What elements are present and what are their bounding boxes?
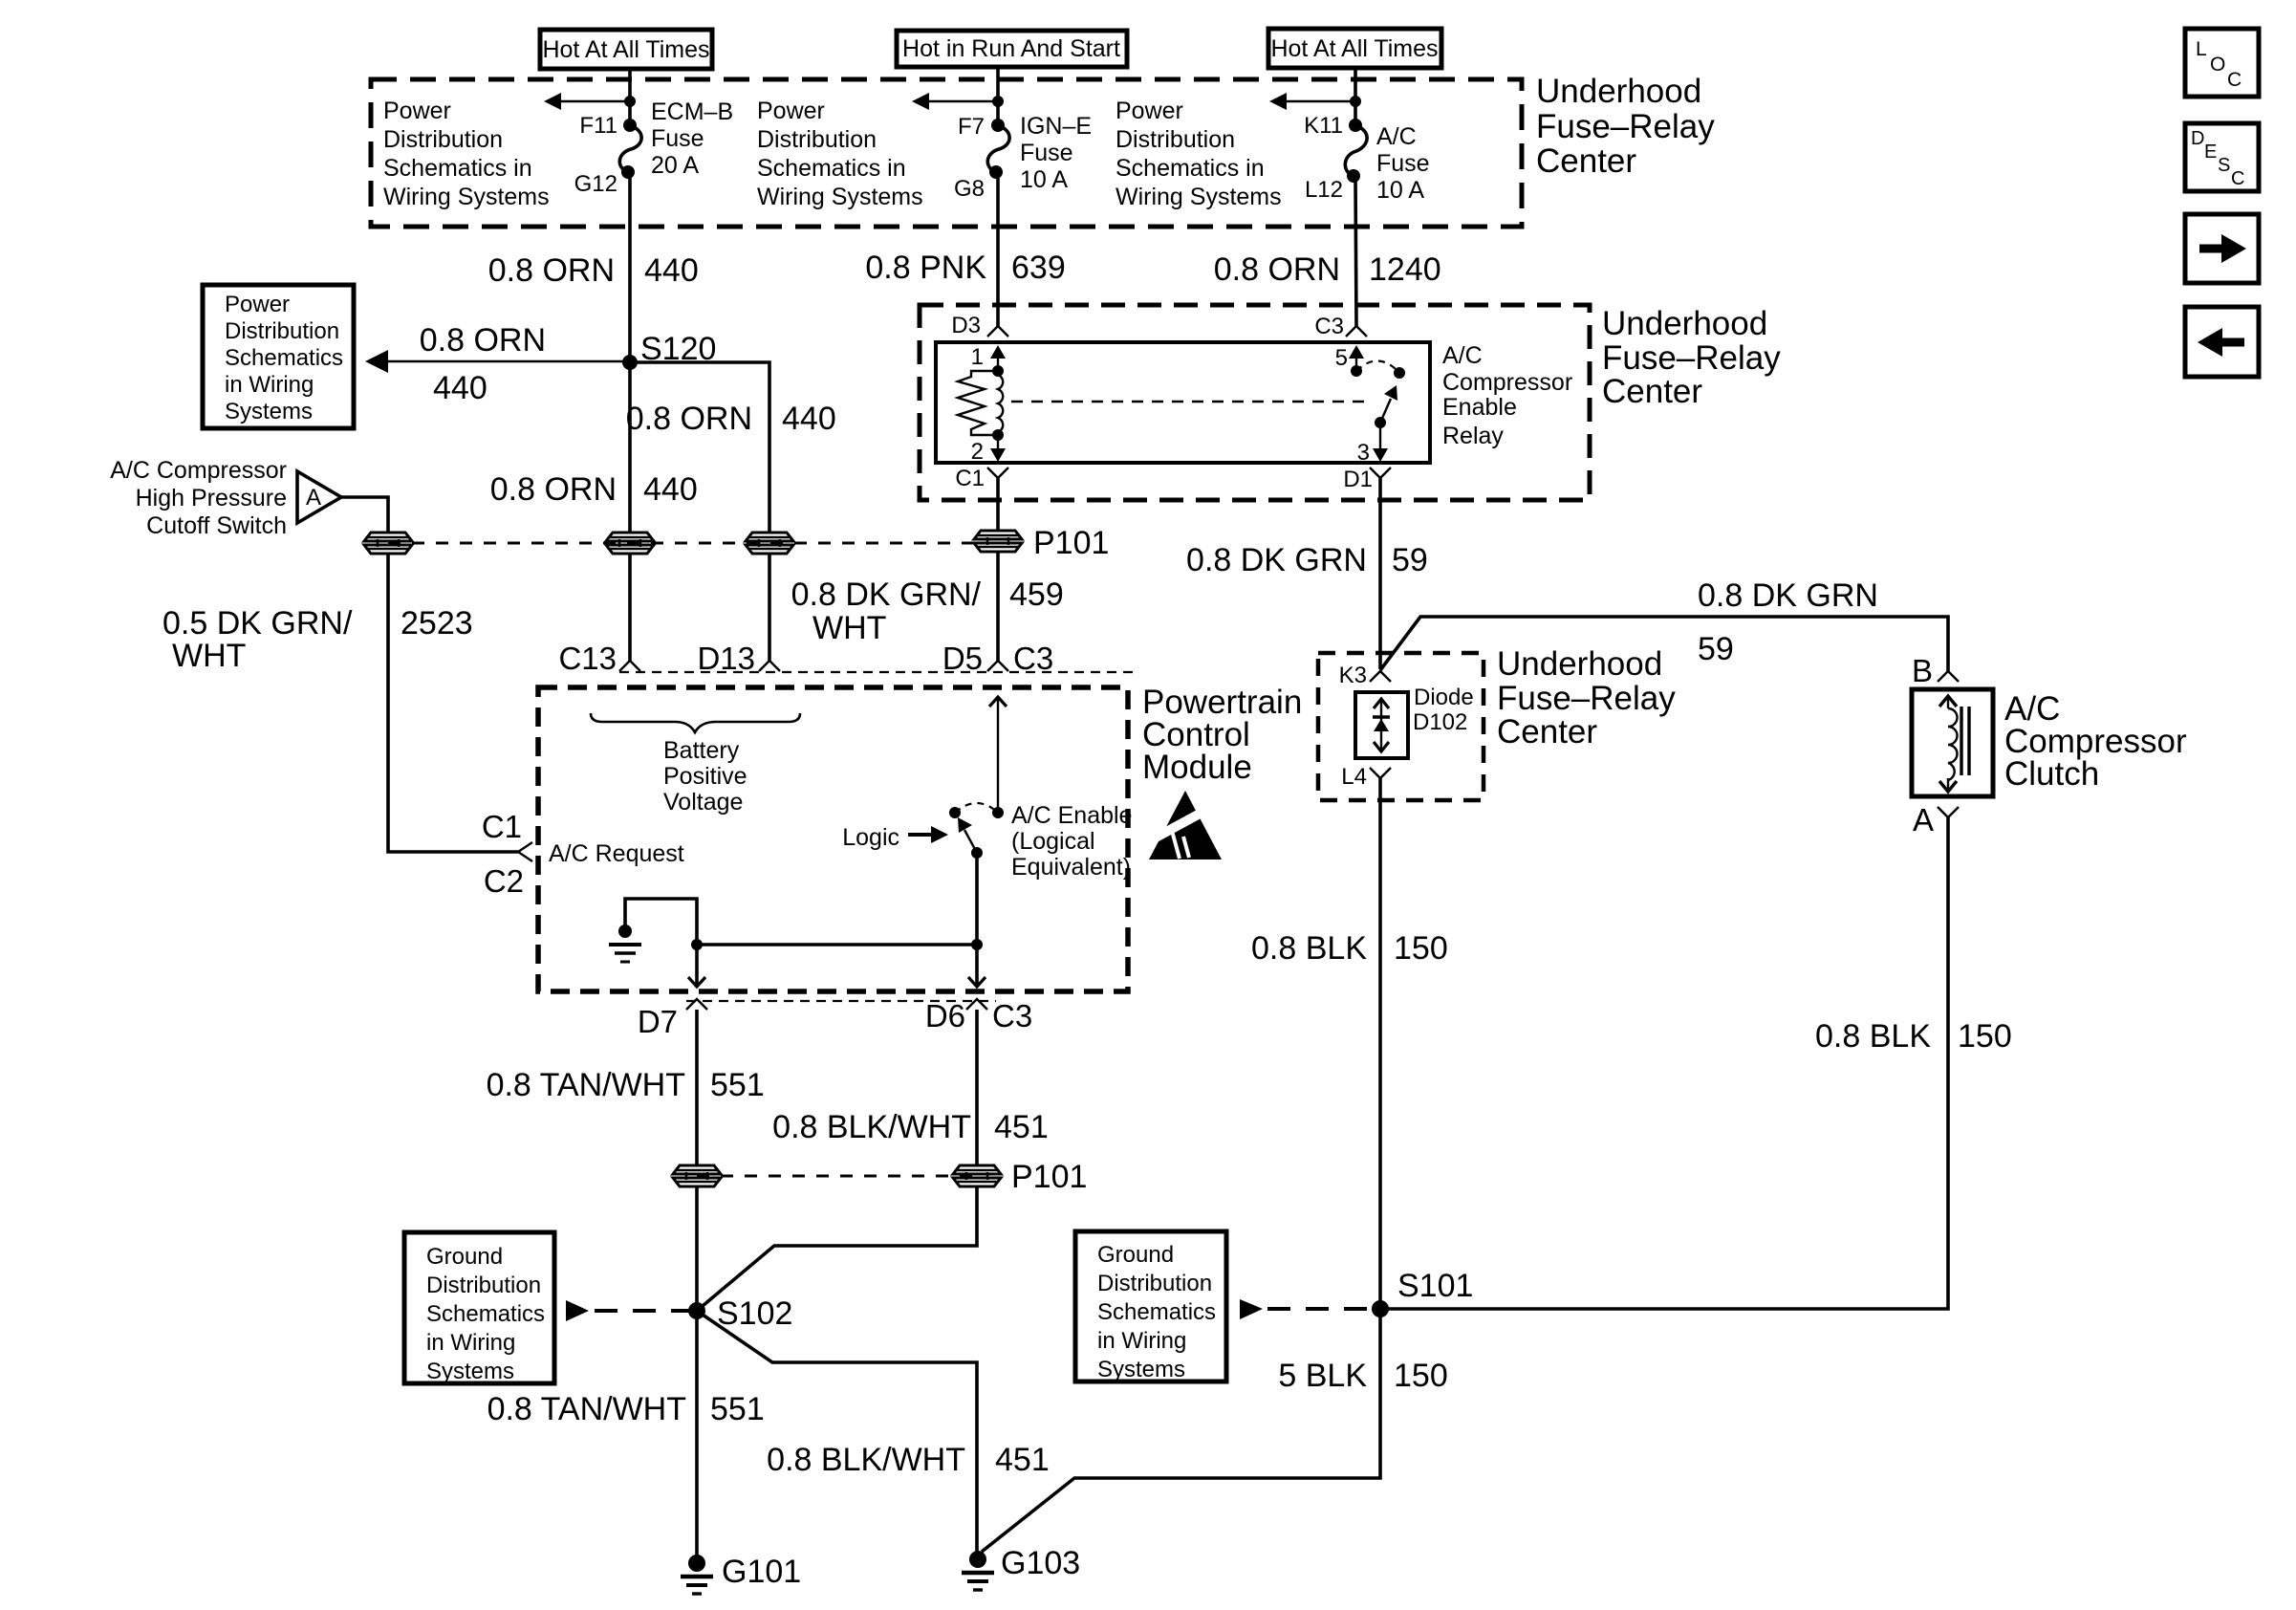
svg-text:Systems: Systems [1097,1357,1185,1382]
svg-text:Battery: Battery [663,737,740,764]
ground distribution box (left) [404,1232,554,1384]
PCM internal junction right [971,939,983,950]
svg-text:Fuse–Relay: Fuse–Relay [1497,680,1676,717]
powertrain control module dashed box [538,687,1128,991]
wire label 0.8 TAN/WHT 551 (upper) [487,1067,765,1103]
wire label 0.8 ORN 1240 [1214,251,1441,288]
svg-text:D6: D6 [925,998,965,1033]
diode D102 [1355,692,1408,758]
pin A chevron (clutch) [1913,802,1959,838]
ground G101 [681,1554,801,1594]
svg-text:551: 551 [710,1067,765,1103]
diode dashed box [1318,653,1484,800]
svg-text:451: 451 [994,1109,1049,1145]
wire label 0.8 BLK/WHT 451 (lower) [767,1442,1050,1478]
svg-text:WHT: WHT [812,610,886,646]
svg-text:E: E [2204,141,2217,163]
relay coil node 1 [992,365,1004,377]
A/C compressor enable relay box [936,342,1430,463]
svg-text:Positive: Positive [663,763,747,790]
svg-text:1240: 1240 [1369,251,1441,288]
wire pivot down [975,853,979,945]
svg-text:Underhood: Underhood [1602,305,1767,342]
relay pivot dot [1375,417,1386,428]
svg-text:Power: Power [225,292,290,317]
label Underhood Fuse-Relay Center (top) [1536,73,1715,180]
svg-text:A/C: A/C [1376,123,1417,150]
svg-text:C: C [2231,168,2244,189]
wire P101 down to PCM D5 [996,553,1000,662]
svg-text:Hot At All Times: Hot At All Times [542,36,709,63]
wire S120 right branch [630,362,769,532]
svg-text:Fuse–Relay: Fuse–Relay [1536,108,1715,145]
svg-text:10 A: 10 A [1020,166,1068,193]
PCM contact travel dashed arc [955,803,998,813]
svg-text:Power: Power [757,98,825,124]
wire label 0.8 ORN / 440 (S120 arrow) [420,322,546,406]
pin K3 chevron [1339,663,1391,688]
svg-text:Distribution: Distribution [757,126,877,153]
svg-text:Compressor: Compressor [1442,369,1572,396]
label Power Distribution Schematics in Wiring Systems (block 2) [757,98,923,210]
pin B chevron (clutch) [1912,653,1959,688]
svg-text:Voltage: Voltage [663,789,743,816]
relay actuation dashed line [1011,401,1373,402]
svg-text:150: 150 [1394,1358,1448,1394]
svg-text:150: 150 [1394,930,1448,967]
svg-text:in Wiring: in Wiring [1097,1328,1186,1354]
ESD sensitive symbol [1147,791,1222,859]
icon LOC [2185,29,2259,97]
relay resistor [958,371,998,435]
inline connector (fuse1 wire) [606,533,654,554]
wire fuse2 down to relay D3 [996,172,1000,326]
svg-text:ECM–B: ECM–B [651,98,733,125]
wire relay C1 down to P101 [996,478,1000,530]
hot box 3: Hot At All Times [1268,29,1441,68]
svg-text:G101: G101 [722,1554,801,1590]
PCM internal horizontal wire [697,943,977,946]
PCM switch right contact dot [992,807,1004,818]
wire label 0.8 ORN 440 (right branch) [626,401,836,437]
svg-text:0.8 DK GRN/: 0.8 DK GRN/ [791,577,982,613]
label Power Distribution Schematics in Wiring Systems (block 1) [383,98,550,210]
wire label 0.8 BLK 150 (right) [1815,1018,2012,1055]
svg-text:Logic: Logic [842,824,899,851]
wire S102 down to G101 [695,1311,699,1556]
relay pin 5 arrow [1335,345,1364,371]
svg-text:K3: K3 [1339,663,1367,688]
svg-text:5 BLK: 5 BLK [1278,1358,1367,1394]
pin D7 chevron [638,999,707,1039]
node S102 [688,1295,792,1332]
label Underhood Fuse-Relay Center (diode) [1497,645,1676,751]
svg-text:0.8 ORN: 0.8 ORN [488,252,615,289]
pin D6/C3 chevron [925,998,1032,1033]
svg-text:Power: Power [383,98,451,124]
svg-text:in Wiring: in Wiring [426,1330,515,1356]
svg-text:0.8 BLK: 0.8 BLK [1815,1018,1931,1055]
svg-text:O: O [2210,54,2225,76]
pin C1/C2 female (PCM left) [482,809,532,899]
wire label 0.8 BLK/WHT 451 (upper) [772,1109,1049,1145]
svg-text:D13: D13 [697,641,755,676]
svg-text:C3: C3 [1314,314,1344,339]
underhood fuse-relay center box (dashed) [371,79,1522,227]
wire label 0.8 ORN 440 (left branch) [490,471,698,508]
relay switch blade [1380,385,1397,423]
pin C1 chevron (relay bottom) [955,466,1008,491]
svg-text:L12: L12 [1305,177,1343,203]
wire from hot box 3 [1354,68,1357,125]
wire label 0.8 BLK 150 (left) [1251,930,1448,967]
fuse A/C K11/L12 [1345,119,1367,183]
svg-text:Center: Center [1497,713,1597,751]
PCM D5 input arrow [989,696,1007,813]
pin C3 chevron (relay) [1314,314,1367,339]
node S120 [622,331,716,370]
svg-text:Center: Center [1536,142,1636,180]
svg-text:20 A: 20 A [651,152,699,179]
svg-text:Hot At All Times: Hot At All Times [1270,35,1438,62]
svg-text:Schematics in: Schematics in [383,155,532,182]
wire D1 to K3 diagonal and horizontal DK GRN 59 [1380,617,1948,671]
relay pin 2 arrow [971,435,1006,465]
svg-text:C1: C1 [955,466,985,491]
wire from hot box 1 [628,69,632,125]
svg-text:2523: 2523 [401,605,473,642]
svg-text:Equivalent): Equivalent) [1011,854,1131,881]
svg-text:G103: G103 [1001,1545,1080,1581]
svg-text:D7: D7 [638,1004,678,1039]
svg-text:0.8 DK GRN: 0.8 DK GRN [1186,542,1367,578]
PCM switch pivot dot [971,847,983,859]
label Power Distribution Schematics in Wiring Systems (block 3) [1116,98,1282,210]
PCM switch blade [958,817,977,853]
inline connector P101 (relay C1 wire) [974,525,1109,561]
svg-text:P101: P101 [1033,525,1109,561]
svg-text:59: 59 [1392,542,1428,578]
wire TAN/WHT down to S102 [695,1187,699,1311]
wire clutch A down to S101 line [1380,817,1948,1309]
svg-text:Distribution: Distribution [426,1273,541,1298]
svg-text:B: B [1912,653,1933,688]
wire label 0.8 PNK 639 [865,250,1065,286]
svg-text:Hot in Run And Start: Hot in Run And Start [902,35,1120,62]
svg-text:Systems: Systems [225,399,313,424]
svg-text:10 A: 10 A [1376,177,1424,204]
svg-text:F11: F11 [579,113,617,139]
arrow to power distribution (fuse 1) [544,93,636,110]
svg-text:Fuse–Relay: Fuse–Relay [1602,339,1781,377]
relay pin 1 arrow [971,344,1006,371]
svg-text:P101: P101 [1011,1159,1087,1195]
wire fuse1 down to S120 [628,172,632,362]
wire right branch below connector to D13 [768,555,771,662]
svg-text:451: 451 [995,1442,1050,1478]
wire label 0.8 TAN/WHT 551 (lower) [487,1391,765,1427]
svg-text:IGN–E: IGN–E [1020,113,1092,140]
svg-text:G8: G8 [954,176,985,202]
svg-text:Relay: Relay [1442,423,1504,449]
svg-text:59: 59 [1698,631,1734,667]
dashed arrow to S101 [1240,1299,1374,1319]
svg-text:551: 551 [710,1391,765,1427]
wire relay D1 down [1378,478,1382,669]
svg-text:440: 440 [644,252,699,289]
svg-text:Schematics: Schematics [225,345,343,371]
label Underhood Fuse-Relay Center (relay) [1602,305,1781,410]
arrow to power distribution (fuse 2) [912,93,1004,110]
svg-text:Wiring Systems: Wiring Systems [1116,184,1282,210]
svg-text:639: 639 [1011,250,1066,286]
icon DESC [2185,123,2259,191]
svg-text:Clutch: Clutch [2004,755,2099,793]
svg-text:A: A [1913,802,1934,838]
PCM bottom connector plane (micro dash) [686,1000,996,1002]
connector P101 dashed plane (row 2) [697,1175,977,1178]
label A/C Compressor High Pressure Cutoff Switch [110,457,287,539]
pin D5/C3 chevron [987,661,1008,671]
icon arrow left [2185,307,2259,377]
svg-text:Fuse: Fuse [1376,150,1430,177]
svg-text:0.8 ORN: 0.8 ORN [490,471,617,508]
svg-text:D102: D102 [1413,709,1467,735]
svg-text:0.8 TAN/WHT: 0.8 TAN/WHT [487,1391,686,1427]
label A/C Enable (Logical Equivalent) [1011,802,1132,881]
wire cutoff switch below connector [388,555,518,852]
svg-text:C3: C3 [1013,641,1053,676]
svg-text:Wiring Systems: Wiring Systems [383,184,550,210]
svg-text:in Wiring: in Wiring [225,372,314,398]
inline connector P101 (BLK/WHT wire) [953,1159,1087,1195]
svg-text:459: 459 [1009,577,1064,613]
svg-text:0.8 TAN/WHT: 0.8 TAN/WHT [487,1067,685,1103]
power distribution schematics box (solid, left) [203,285,354,428]
svg-text:L: L [2196,38,2207,60]
svg-text:Distribution: Distribution [1116,126,1235,153]
svg-text:Module: Module [1142,749,1252,786]
pin C13 chevron [619,661,640,671]
wire L4 down to S101 [1378,778,1382,1309]
svg-text:0.5 DK GRN/: 0.5 DK GRN/ [162,605,353,642]
svg-text:Diode: Diode [1414,685,1474,710]
PCM top connector plane (micro dash) [619,671,1134,673]
svg-text:0.8 DK GRN: 0.8 DK GRN [1698,577,1878,614]
svg-text:C2: C2 [484,863,524,899]
svg-text:440: 440 [782,401,836,437]
svg-text:Cutoff Switch: Cutoff Switch [146,512,287,539]
wire label 0.8 DK GRN 59 [1186,542,1428,578]
arrow to power distribution (fuse 3) [1269,93,1361,110]
wire S102 lower branch to G103 [697,1311,977,1553]
ground distribution box (right) [1075,1231,1226,1382]
svg-text:Underhood: Underhood [1497,645,1662,683]
svg-text:Schematics in: Schematics in [1116,155,1265,182]
PCM D6 output arrow [968,945,986,987]
svg-text:1: 1 [971,344,984,370]
dashed arrow to S102 [566,1300,690,1321]
wire from cutoff switch [341,497,388,532]
icon arrow right [2185,214,2259,283]
wire label 0.5 DK GRN/ WHT 2523 [162,605,473,674]
svg-text:2: 2 [971,439,984,465]
svg-text:WHT: WHT [172,638,246,674]
wire label 5 BLK 150 [1278,1358,1447,1394]
svg-text:Center: Center [1602,373,1702,410]
svg-text:Schematics: Schematics [1097,1299,1216,1325]
wire D7 down to P101 row2 [695,1010,699,1164]
svg-text:Schematics: Schematics [426,1301,545,1327]
svg-text:D3: D3 [951,313,981,338]
S120 arrow to power distribution box [365,350,630,373]
svg-text:G12: G12 [574,171,617,197]
svg-text:S101: S101 [1397,1268,1473,1304]
relay coil winding [998,371,1003,435]
label Powertrain Control Module [1142,684,1302,786]
svg-text:3: 3 [1357,440,1370,466]
svg-text:D1: D1 [1343,467,1373,492]
relay coil node 2 [992,429,1004,441]
svg-text:Enable: Enable [1442,394,1517,421]
wire S101 down to G103 [982,1309,1380,1552]
svg-text:5: 5 [1335,345,1348,371]
svg-text:S102: S102 [717,1295,792,1332]
svg-text:0.8 ORN: 0.8 ORN [626,401,752,437]
wire label 0.8 DK GRN 59 (horizontal) [1698,577,1878,667]
svg-text:Wiring Systems: Wiring Systems [757,184,923,210]
svg-text:A/C Request: A/C Request [549,840,684,867]
svg-text:A/C: A/C [1442,342,1483,369]
PCM internal ground [609,925,641,962]
svg-text:440: 440 [433,370,487,406]
relay contact travel dashed arc [1356,360,1399,373]
svg-text:C: C [2227,69,2242,91]
svg-text:Distribution: Distribution [383,126,503,153]
svg-text:Systems: Systems [426,1359,514,1384]
svg-text:S: S [2218,155,2230,176]
svg-text:0.8 BLK/WHT: 0.8 BLK/WHT [772,1109,971,1145]
svg-text:Schematics in: Schematics in [757,155,906,182]
hot box 2: Hot in Run And Start [897,31,1127,67]
label Battery Positive Voltage [663,737,747,816]
svg-text:0.8 PNK: 0.8 PNK [865,250,986,286]
relay pin 5 contact dot [1351,365,1362,377]
relay: underhood fuse-relay center dashed box [920,305,1590,500]
brace battery positive voltage [591,713,800,732]
svg-text:Fuse: Fuse [1020,140,1073,166]
svg-text:0.8 ORN: 0.8 ORN [420,322,546,359]
label A/C Compressor Enable Relay [1442,342,1572,449]
fuse ECM-B F11/G12 [619,119,641,179]
connector P101 dashed plane (row 1) [388,542,998,545]
PCM internal ground hook wire [625,899,697,945]
svg-text:A: A [306,485,321,511]
relay pin 3 arrow [1357,423,1388,466]
svg-text:0.8 BLK/WHT: 0.8 BLK/WHT [767,1442,965,1478]
PCM internal junction left [691,939,703,950]
wire label 0.8 ORN 440 (fuse1) [488,252,699,289]
inline connector (cutoff switch wire) [364,533,412,554]
label Diode D102 [1413,685,1474,735]
wire fuse3 down to relay C3 [1355,176,1356,326]
svg-text:A/C Compressor: A/C Compressor [110,457,287,484]
svg-text:0.8 ORN: 0.8 ORN [1214,251,1340,288]
inline connector (TAN/WHT wire) [673,1165,721,1186]
node S101 [1372,1268,1473,1317]
wire from hot box 2 [996,67,1000,125]
wire BLK/WHT down and into S102 [697,1187,977,1311]
pin D13 chevron [759,661,780,671]
pin D3 chevron [951,313,1008,338]
svg-text:High Pressure: High Pressure [136,485,287,511]
svg-text:C13: C13 [558,641,617,676]
clutch coil [1939,695,1969,793]
svg-text:D: D [2191,128,2204,149]
A/C compressor clutch box [1912,689,1993,796]
A/C compressor high pressure cutoff switch connector triangle A [297,471,341,523]
svg-text:K11: K11 [1304,113,1343,139]
svg-text:440: 440 [643,471,698,508]
pin D1 chevron (relay bottom) [1343,467,1391,492]
svg-text:L4: L4 [1341,764,1367,790]
svg-text:F7: F7 [958,114,985,140]
inline connector (right branch wire) [746,533,793,554]
pin L4 chevron [1341,764,1391,790]
ground G103 [962,1545,1080,1590]
svg-text:A/C Enable: A/C Enable [1011,802,1132,829]
label Logic with arrow [842,824,948,851]
PCM D7 output arrow [688,945,705,987]
relay moving contact dot [1394,367,1405,379]
hot box 1: Hot At All Times [540,30,712,69]
svg-text:C3: C3 [992,998,1032,1033]
wire D6 down to P101 row2 [975,1010,979,1164]
svg-text:Ground: Ground [426,1244,503,1270]
svg-text:Distribution: Distribution [225,318,339,344]
svg-text:Power: Power [1116,98,1183,124]
wire S120 down [628,362,632,532]
svg-text:Fuse: Fuse [651,125,704,152]
fuse IGN-E F7/G8 [987,119,1009,179]
svg-text:Underhood: Underhood [1536,73,1701,110]
svg-text:150: 150 [1958,1018,2012,1055]
svg-text:C1: C1 [482,809,522,844]
svg-text:Distribution: Distribution [1097,1271,1212,1296]
svg-text:D5: D5 [942,641,983,676]
label A/C Compressor Clutch [2004,690,2187,793]
svg-text:(Logical: (Logical [1011,828,1095,855]
PCM switch left contact dot [949,807,961,818]
wire label 0.8 DK GRN/ WHT 459 [791,577,1064,646]
svg-text:Ground: Ground [1097,1242,1174,1268]
svg-text:0.8 BLK: 0.8 BLK [1251,930,1367,967]
wire fuse1 below connector to C13 [628,555,632,662]
